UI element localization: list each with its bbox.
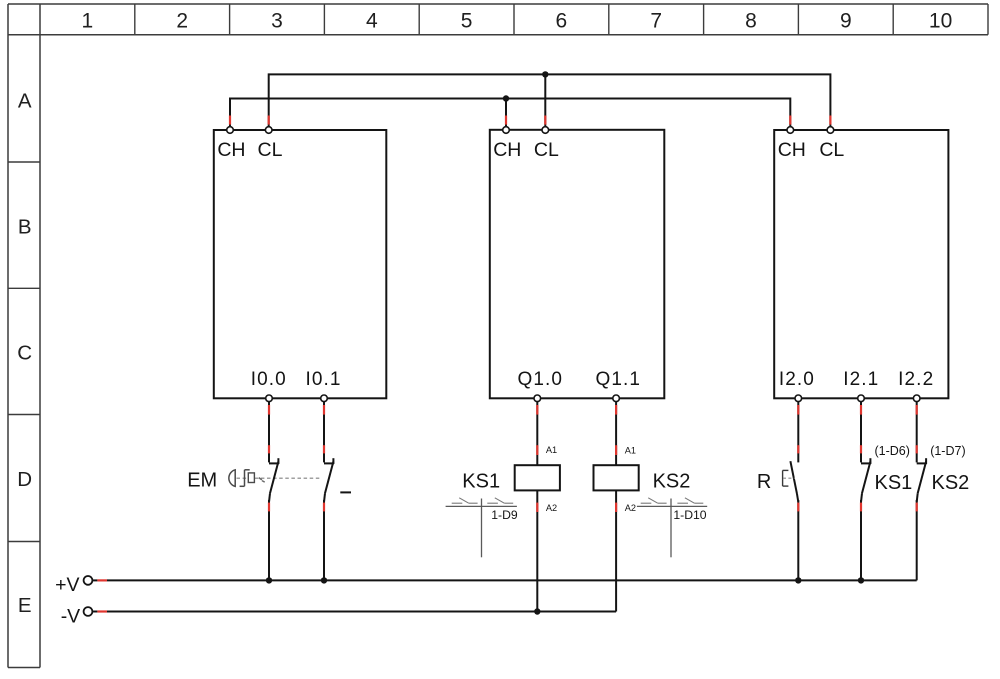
svg-text:CL: CL (258, 139, 283, 161)
EM mushroom-head actuator (229, 470, 265, 487)
svg-text:(1-D7): (1-D7) (930, 444, 965, 458)
wire: -V rail (92, 611, 616, 613)
svg-text:B: B (18, 216, 32, 239)
contact KS2 on I2.2 (917, 402, 927, 581)
junction: KS1 wire to -V rail (534, 608, 540, 614)
svg-text:6: 6 (556, 10, 568, 33)
svg-text:8: 8 (745, 10, 757, 33)
svg-text:KS1: KS1 (462, 471, 500, 493)
wire coil KS2 A2 down to -V rail end (615, 490, 617, 611)
svg-text:C: C (17, 342, 32, 365)
svg-text:A1: A1 (625, 446, 636, 456)
svg-text:D: D (17, 468, 32, 491)
terminal Q1.0 (534, 395, 541, 402)
terminal -V (84, 607, 93, 616)
label underscore placeholder (340, 491, 351, 493)
junction: I2.1 branch to +V (858, 577, 864, 583)
svg-text:4: 4 (366, 10, 378, 33)
svg-text:1-D9: 1-D9 (491, 508, 518, 522)
PLC module U1 (214, 130, 386, 398)
svg-text:(1-D6): (1-D6) (874, 444, 909, 458)
svg-text:1-D10: 1-D10 (673, 508, 706, 522)
svg-text:R: R (757, 471, 771, 493)
terminal CH (x=230) (227, 127, 234, 134)
svg-text:I2.1: I2.1 (843, 369, 879, 390)
mechanical link line (EM to both contacts) (237, 477, 322, 479)
coil KS1 (515, 465, 560, 490)
red wire markers on bus drops (230, 116, 830, 125)
svg-text:KS2: KS2 (653, 471, 691, 493)
svg-text:7: 7 (650, 10, 662, 33)
coil KS2 (594, 465, 639, 490)
contact KS1 on I2.1 (861, 402, 871, 581)
svg-text:A2: A2 (625, 503, 636, 513)
svg-text:1: 1 (82, 10, 94, 33)
svg-text:A2: A2 (546, 503, 557, 513)
wire coil KS1 A2 to -V rail (536, 490, 538, 611)
terminal I0.1 (321, 395, 328, 402)
terminal CL (x=830.4) (827, 127, 834, 134)
terminal Q1.1 (613, 395, 620, 402)
svg-text:Q1.1: Q1.1 (596, 369, 642, 390)
terminal I2.0 (795, 395, 802, 402)
junction: I0.0 branch to +V (266, 577, 272, 583)
junction: I0.1 branch to +V (321, 577, 327, 583)
svg-text:-V: -V (61, 605, 81, 627)
contact cross-reference for KS2 (1-D10) (637, 498, 707, 558)
svg-text:+V: +V (55, 574, 79, 596)
terminal CL (x=268.7) (265, 127, 272, 134)
svg-text:I0.1: I0.1 (305, 369, 341, 390)
svg-text:I2.0: I2.0 (779, 369, 815, 390)
contact S1 (EM) on I0.0 (269, 402, 279, 581)
terminal I2.2 (913, 395, 920, 402)
wire: CH bus (net CH, row A) (230, 99, 790, 128)
contact cross-reference for KS1 (1-D9) (446, 498, 517, 558)
svg-text:CH: CH (778, 139, 806, 161)
junction: I2.0 branch to +V (795, 577, 801, 583)
junction: CL bus to U2 CL (542, 71, 548, 77)
junction: CH bus to U2 CH (503, 95, 509, 101)
PLC module U2 (490, 130, 665, 399)
wire Q1.0 to coil KS1 A1 (536, 402, 538, 466)
svg-text:5: 5 (461, 10, 473, 33)
svg-text:CL: CL (534, 139, 559, 161)
svg-text:E: E (18, 594, 32, 617)
contact S2 on I0.1 (324, 402, 334, 581)
terminal I0.0 (266, 395, 273, 402)
PLC module U3 (774, 130, 948, 398)
svg-text:CL: CL (819, 139, 844, 161)
terminal +V (84, 576, 93, 585)
svg-text:10: 10 (929, 10, 952, 33)
terminal CL (x=545.3) (542, 127, 549, 134)
svg-text:9: 9 (840, 10, 852, 33)
svg-text:KS2: KS2 (931, 472, 969, 494)
terminal I2.1 (858, 395, 865, 402)
svg-text:I0.0: I0.0 (251, 369, 287, 390)
svg-text:KS1: KS1 (874, 472, 912, 494)
svg-text:CH: CH (493, 139, 521, 161)
svg-text:EM: EM (187, 470, 217, 492)
R manual actuator (783, 470, 795, 486)
svg-text:CH: CH (217, 139, 245, 161)
wire: CL bus (net CL, row A) (269, 74, 831, 127)
contact R on I2.0 (normally open) (790, 402, 798, 581)
wire Q1.1 to coil KS2 A1 (615, 402, 617, 466)
svg-text:3: 3 (271, 10, 283, 33)
svg-text:A1: A1 (546, 445, 557, 455)
svg-text:I2.2: I2.2 (898, 369, 934, 390)
svg-text:A: A (18, 89, 32, 112)
wire: +V rail (92, 579, 916, 581)
terminal CH (x=506) (503, 127, 510, 134)
svg-text:2: 2 (176, 10, 188, 33)
terminal CH (x=790.3) (787, 127, 794, 134)
svg-text:Q1.0: Q1.0 (518, 369, 564, 390)
